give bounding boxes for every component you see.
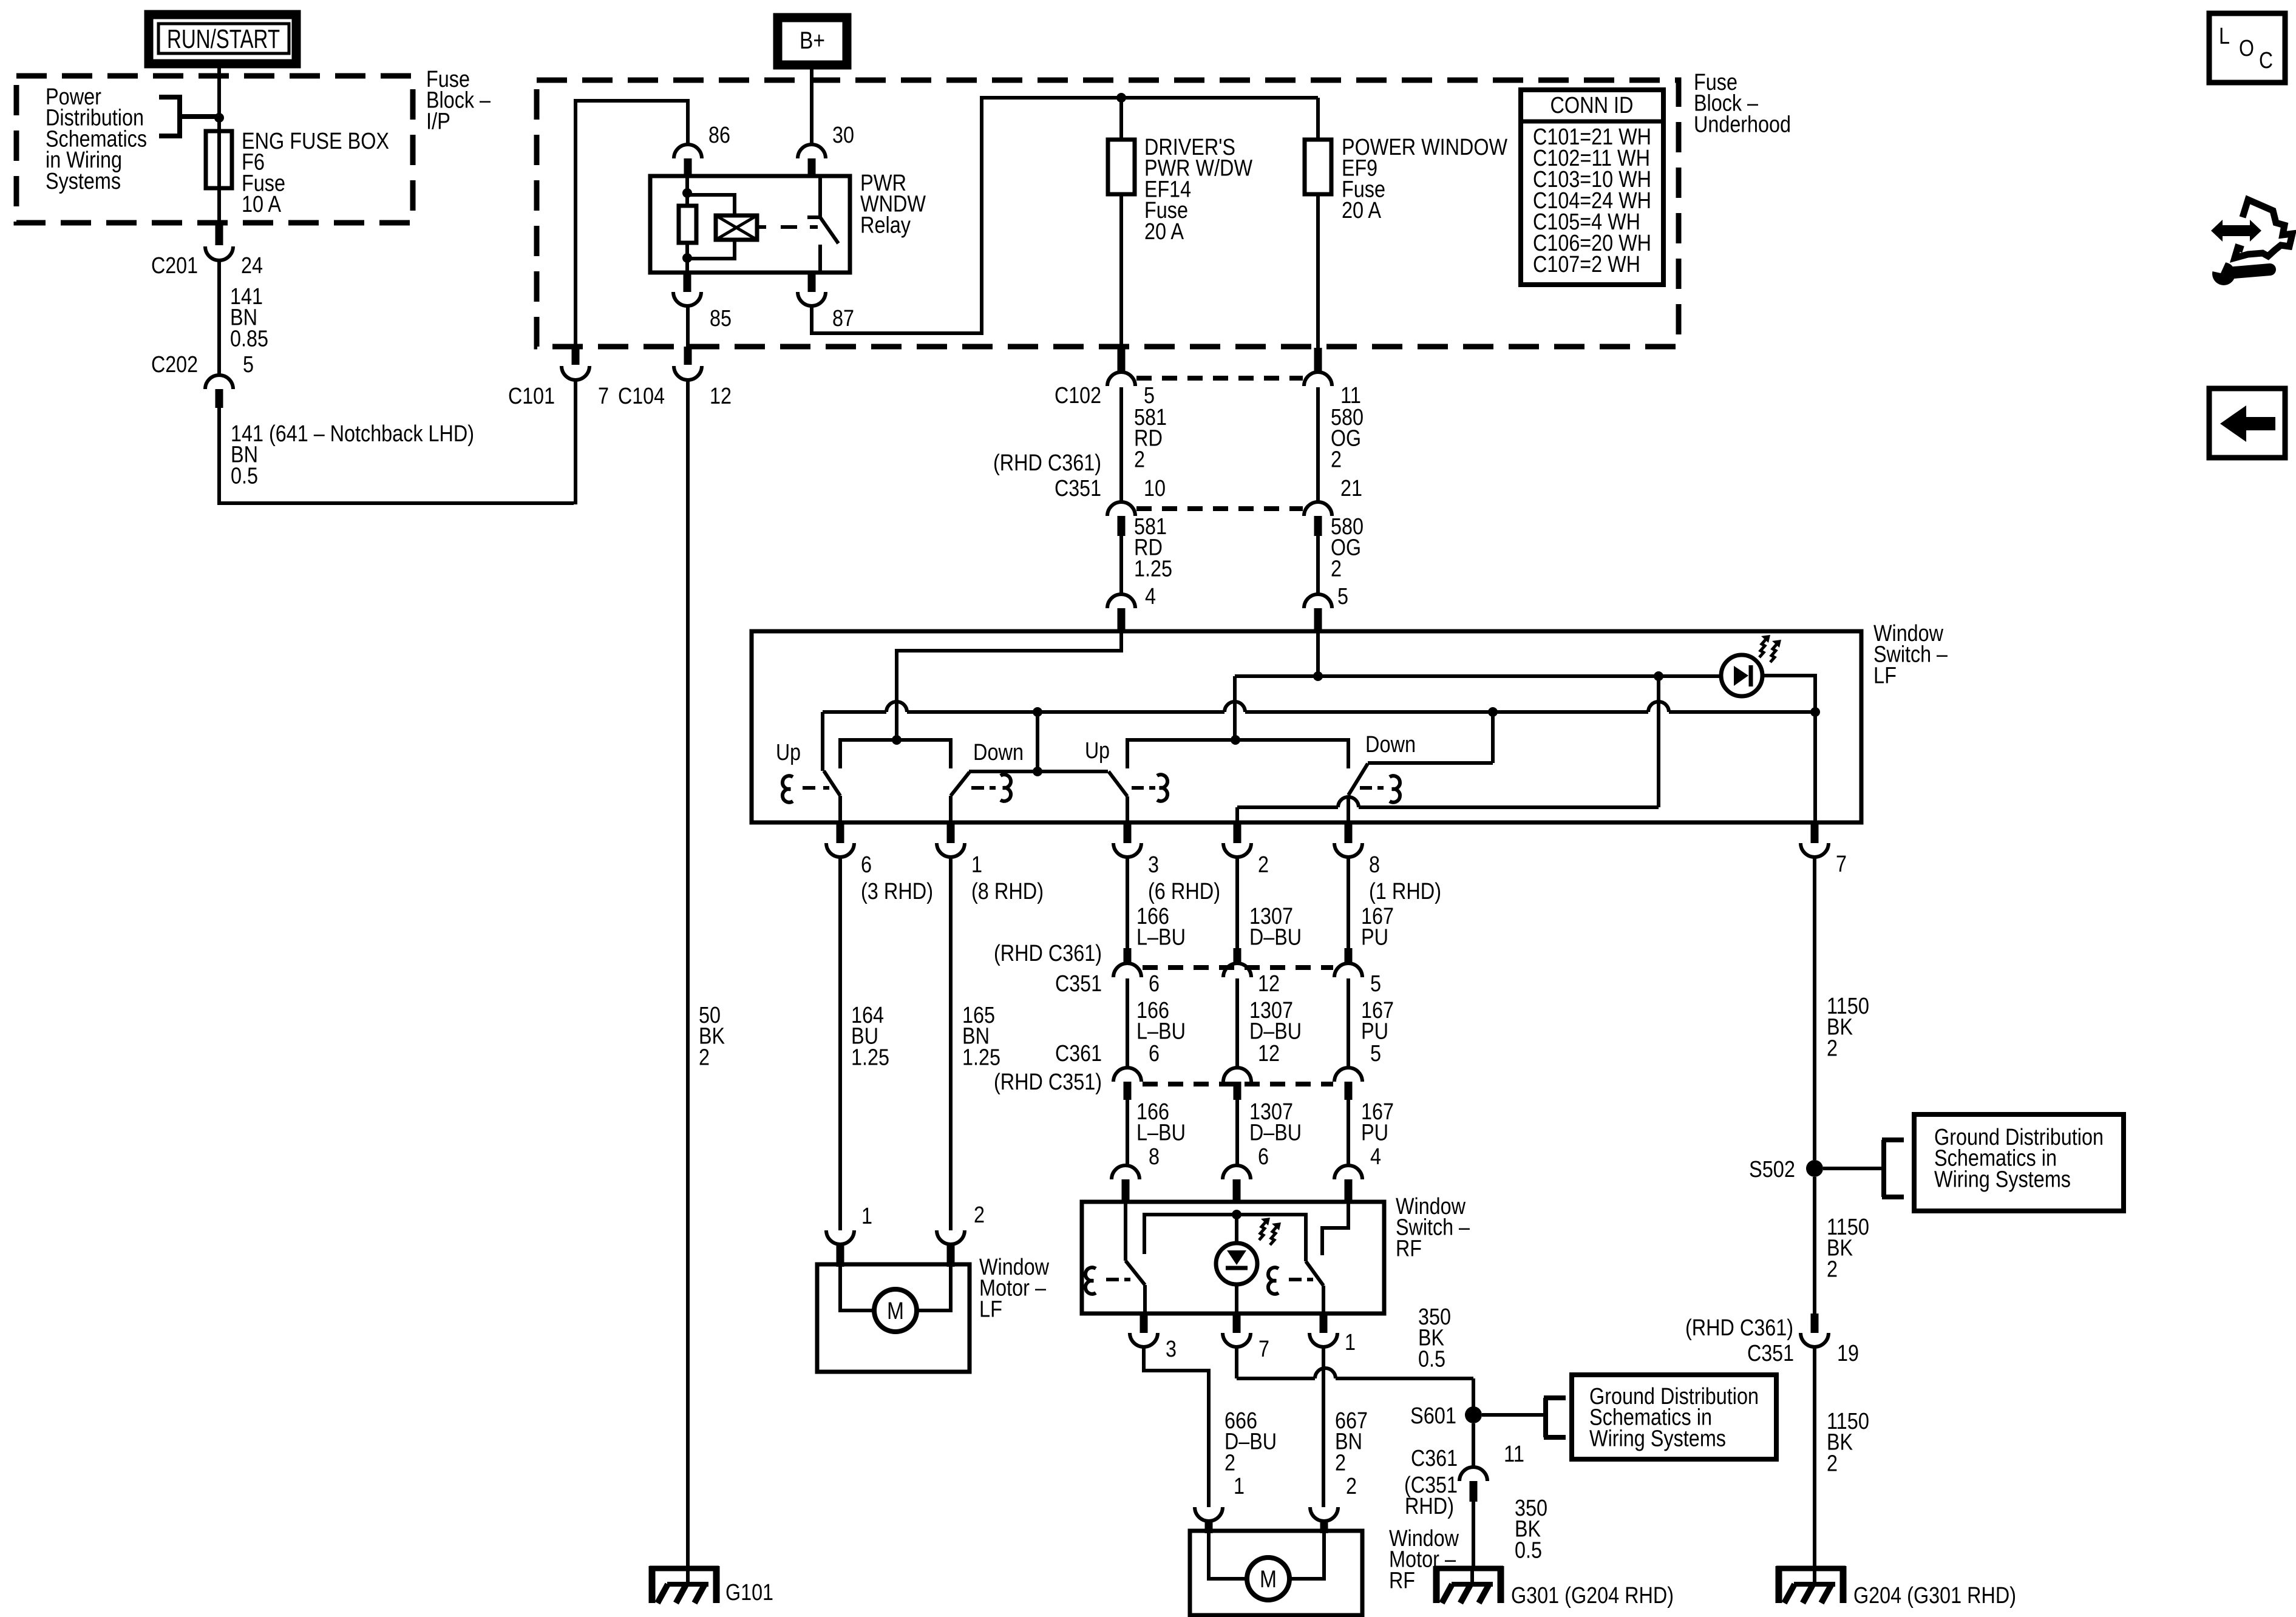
svg-text:5: 5 <box>243 352 254 378</box>
svg-text:L–BU: L–BU <box>1136 925 1186 951</box>
svg-text:(6 RHD): (6 RHD) <box>1148 879 1220 904</box>
svg-text:19: 19 <box>1837 1341 1859 1366</box>
svg-text:1.25: 1.25 <box>962 1045 1000 1070</box>
motor M RF <box>1247 1558 1289 1600</box>
wire supply down to rocker-2 bail <box>1233 676 1237 740</box>
svg-text:5: 5 <box>1337 584 1348 609</box>
svg-text:LF: LF <box>1873 663 1897 688</box>
svg-text:20 A: 20 A <box>1342 198 1382 223</box>
svg-text:(8 RHD): (8 RHD) <box>971 879 1044 904</box>
wire S601 down to C361 pin 11 <box>1472 1423 1475 1467</box>
connector LF switch pin 7 <box>1811 822 1819 843</box>
svg-text:D–BU: D–BU <box>1249 1120 1302 1146</box>
svg-text:6: 6 <box>1258 1144 1269 1170</box>
svg-text:7: 7 <box>1836 852 1847 877</box>
svg-text:G204 (G301 RHD): G204 (G301 RHD) <box>1853 1583 2016 1609</box>
switch Up-1 actuator <box>783 776 793 802</box>
svg-text:S502: S502 <box>1749 1157 1795 1182</box>
wire 666 D-BU RF pin 3 to motor <box>1144 1347 1209 1507</box>
switch Down-2 actuator <box>1390 776 1400 802</box>
svg-text:141 (641 – Notchback LHD): 141 (641 – Notchback LHD) <box>231 421 474 447</box>
wire pin 7 inside box <box>1813 712 1817 822</box>
wire net EF9 inside LF switch <box>1316 632 1320 676</box>
wire B+ to relay pin 30 <box>810 65 813 144</box>
wire relay 85 to C104 <box>686 306 690 347</box>
node junction below resistor <box>682 253 692 263</box>
svg-text:12: 12 <box>710 384 732 409</box>
wire 50 BK from C104 to G101 <box>686 380 690 1571</box>
wire 167 PU seg3 <box>1347 1100 1350 1165</box>
connector C102 pin 5 <box>1118 348 1126 372</box>
switch Down-1 actuator <box>1000 775 1011 801</box>
svg-text:Down: Down <box>973 740 1024 765</box>
svg-text:0.5: 0.5 <box>1418 1346 1445 1372</box>
connector motor LF pin 1 <box>826 1230 854 1244</box>
wire 1150 BK seg2 <box>1813 1177 1816 1314</box>
relay switch fixed contact from pin 30 <box>818 176 822 217</box>
wire 350 BK RF pin 7 to S601 <box>1235 1347 1238 1378</box>
connector motor RF pin 2 <box>1310 1507 1338 1521</box>
svg-text:(RHD C351): (RHD C351) <box>994 1070 1102 1095</box>
svg-text:86: 86 <box>708 123 730 148</box>
bail bracket rocker 2 <box>1127 740 1348 768</box>
svg-text:2: 2 <box>1331 447 1342 472</box>
wire 1150 BK seg3 to G204 <box>1813 1347 1816 1571</box>
svg-text:(3 RHD): (3 RHD) <box>861 879 933 904</box>
svg-text:1.25: 1.25 <box>851 1045 889 1070</box>
wire 580 OG 2 <box>1316 387 1320 502</box>
connector C351 pin 19 <box>1811 1314 1819 1333</box>
wire 166 L-BU seg3 <box>1126 1100 1129 1165</box>
connector C351 pin 21 <box>1304 502 1332 516</box>
component box Window Motor - RF <box>1190 1531 1362 1615</box>
connector RF switch bottom pin 3 <box>1140 1314 1148 1333</box>
switch Down-1 blade <box>951 772 970 796</box>
wire 1307 D-BU seg3 <box>1235 1100 1239 1165</box>
ground G204 <box>1776 1566 1846 1603</box>
switch Up-2 blade <box>1109 771 1127 796</box>
svg-text:C102: C102 <box>1055 383 1101 408</box>
node junction at Power Distribution tap <box>214 113 224 123</box>
svg-text:Wiring Systems: Wiring Systems <box>1589 1426 1726 1451</box>
reference bracket S502 <box>1882 1140 1904 1197</box>
component box Window Switch - LF <box>752 631 1861 822</box>
node junction ground bus to Down-2 rest wire <box>1488 707 1498 717</box>
switch Down-RF actuator <box>1268 1267 1279 1294</box>
svg-text:C101: C101 <box>508 384 555 409</box>
dashed connector link C102 <box>1136 376 1303 381</box>
wire C201 to C202 (141 BN 0.85) <box>217 260 221 375</box>
icon box back arrow <box>2209 388 2285 458</box>
svg-text:RF: RF <box>1389 1568 1415 1593</box>
svg-text:S601: S601 <box>1410 1403 1456 1429</box>
wire junction down to rest wire of rockers mid <box>1036 712 1039 771</box>
svg-text:Systems: Systems <box>46 169 121 194</box>
connector C351 pin 6 <box>1124 948 1132 964</box>
wire pin2 feed down to pin 2 <box>1657 676 1660 807</box>
connector C361 pin 12 <box>1223 1068 1251 1082</box>
svg-text:8: 8 <box>1369 852 1380 878</box>
ground bus wire inside LF switch <box>823 710 886 714</box>
wire pin 8 drop <box>1347 795 1350 822</box>
svg-text:12: 12 <box>1258 1041 1280 1066</box>
wire 350 BK 0.5 to G301 <box>1472 1502 1475 1571</box>
relay coil (box with X) <box>716 215 757 240</box>
table CONN ID <box>1521 90 1663 285</box>
wire 581 RD 2 <box>1119 387 1123 502</box>
connector RF switch bottom pin 7 <box>1233 1314 1241 1333</box>
wire to pin 2 with hop over pin 8 <box>1237 805 1338 809</box>
bail bracket rocker 1 <box>840 740 951 768</box>
wire pin 6 drop <box>838 796 842 822</box>
node junction on mid rest wire <box>1033 767 1042 776</box>
svg-text:6: 6 <box>1149 971 1160 997</box>
connector C202 pin 5 <box>205 375 233 389</box>
ground G101 <box>650 1566 719 1603</box>
svg-text:O: O <box>2239 36 2254 61</box>
svg-text:G101: G101 <box>725 1580 773 1605</box>
switch Up-RF blade <box>1126 1261 1145 1285</box>
svg-text:2: 2 <box>1335 1450 1346 1476</box>
node junction supply <box>1313 671 1323 681</box>
wire RF pin 1 drop <box>1322 1286 1325 1314</box>
wire RF pin 3 drop <box>1143 1285 1147 1314</box>
reference bracket S601 <box>1544 1398 1566 1437</box>
svg-text:M: M <box>1260 1566 1277 1593</box>
connector relay pin 86 <box>674 144 702 158</box>
svg-text:6: 6 <box>861 852 872 878</box>
svg-text:RF: RF <box>1396 1236 1422 1261</box>
svg-text:10 A: 10 A <box>242 192 282 217</box>
fuse F6 ENG FUSE BOX 10A <box>206 131 232 188</box>
fuse EF14 DRIVERS PWR W/DW 20A <box>1108 140 1135 194</box>
rest wire of Down-2 <box>1368 761 1493 765</box>
connector into LF switch pin 4 <box>1107 594 1135 608</box>
wire 1307 D-BU seg2 <box>1235 978 1239 1068</box>
connector C361 pin 6 <box>1113 1068 1141 1082</box>
wire ground bus left end down to Up-1 contact <box>821 712 824 771</box>
wire branch to coil top <box>687 195 735 215</box>
connector C101 pin 7 <box>572 347 580 365</box>
svg-text:1: 1 <box>861 1204 872 1229</box>
svg-text:D–BU: D–BU <box>1249 925 1302 951</box>
connector LF switch pin 3 <box>1124 822 1132 843</box>
wire LED to ground bus <box>1762 676 1815 712</box>
dashed connector link C361 <box>1143 1082 1333 1086</box>
motor M LF <box>874 1289 917 1332</box>
wire 141 up into C101 <box>574 380 577 504</box>
node junction on RF bail <box>1232 1210 1241 1219</box>
svg-text:L–BU: L–BU <box>1136 1019 1186 1045</box>
node junction ground bus to Down-1 feed <box>1033 707 1042 717</box>
rest wire between Down-1 and Up-2 <box>969 770 1108 773</box>
wire 167 PU seg2 <box>1347 978 1350 1068</box>
relay switch lower contact to pin 87 <box>818 245 822 273</box>
power feed box B+ <box>778 18 847 65</box>
LED illumination arrows RF <box>1259 1218 1281 1245</box>
svg-text:C351: C351 <box>1747 1341 1794 1366</box>
node junction ground bus at pin 7 <box>1810 707 1820 717</box>
dashed connector link C351 mid <box>1143 965 1333 970</box>
note box Ground Distribution (S502) <box>1914 1114 2124 1211</box>
wire 581 RD 1.25 <box>1119 536 1123 594</box>
connector relay pin 30 <box>798 144 826 158</box>
svg-text:C361: C361 <box>1411 1446 1458 1471</box>
svg-text:3: 3 <box>1148 852 1159 878</box>
svg-text:Down: Down <box>1365 732 1416 758</box>
svg-text:1.25: 1.25 <box>1134 556 1172 581</box>
svg-text:2: 2 <box>1827 1036 1838 1061</box>
motor LF internal wiring <box>840 1267 874 1310</box>
svg-text:RHD): RHD) <box>1405 1494 1454 1519</box>
wire 164 BU to motor LF pin 1 <box>838 857 842 1230</box>
connector into LF switch pin 5 <box>1304 594 1332 608</box>
connector C102 pin 11 <box>1314 348 1322 372</box>
wire RUN/START to fuse F6 <box>217 64 221 224</box>
svg-text:2: 2 <box>1258 852 1269 878</box>
svg-text:0.85: 0.85 <box>230 326 268 351</box>
LED indicator RF switch <box>1216 1215 1257 1314</box>
switch Up-RF actuator <box>1085 1267 1096 1294</box>
svg-text:(RHD C361): (RHD C361) <box>994 941 1102 966</box>
switch Down-RF blade <box>1306 1261 1323 1286</box>
connector C361 pin 5 <box>1334 1068 1362 1082</box>
svg-text:M: M <box>887 1298 904 1324</box>
fuse EF9 POWER WINDOW 20A <box>1305 140 1331 194</box>
svg-text:C201: C201 <box>151 253 198 279</box>
switch Down-2 blade <box>1348 764 1368 795</box>
svg-text:Relay: Relay <box>860 212 911 238</box>
svg-text:7: 7 <box>598 384 609 409</box>
supply wire to LED and bail 2 <box>1235 674 1722 678</box>
connector C351 pin 12 <box>1234 948 1241 964</box>
wire pin 3 drop <box>1126 796 1129 822</box>
connector LF switch pin 6 <box>837 822 844 843</box>
wire EF14 to C102 pin 5 <box>1119 194 1123 348</box>
svg-text:11: 11 <box>1504 1442 1524 1467</box>
note box Ground Distribution (S601) <box>1572 1375 1776 1459</box>
connector relay pin 85 <box>684 273 691 292</box>
svg-text:8: 8 <box>1149 1144 1160 1170</box>
svg-text:G301 (G204 RHD): G301 (G204 RHD) <box>1511 1583 1674 1609</box>
dashed box Fuse Block - I/P <box>16 76 413 223</box>
svg-text:20 A: 20 A <box>1144 219 1184 245</box>
icon box LOC <box>2209 13 2285 83</box>
svg-text:2: 2 <box>974 1202 985 1228</box>
svg-text:Wiring Systems: Wiring Systems <box>1934 1167 2071 1192</box>
wire EF9 feed down <box>1316 98 1320 140</box>
svg-text:C202: C202 <box>151 352 198 378</box>
wire 167 PU from LF pin 8 <box>1347 857 1350 948</box>
wire 141 (641) BN 0.5 down and right to C101 <box>219 408 574 503</box>
wire 166 L-BU from LF pin 3 <box>1126 857 1129 948</box>
svg-text:C351: C351 <box>1055 476 1101 501</box>
icon service tool (arrow car wrench) <box>2207 200 2292 285</box>
svg-text:C: C <box>2259 48 2273 73</box>
svg-text:5: 5 <box>1370 971 1381 997</box>
LED illumination arrows LF <box>1759 635 1781 662</box>
wire pin 1 drop <box>949 796 953 822</box>
switch Up-1 blade <box>824 771 840 796</box>
svg-text:10: 10 <box>1144 476 1166 501</box>
wire pin 2 drop <box>1235 807 1239 822</box>
svg-text:0.5: 0.5 <box>1515 1537 1542 1563</box>
connector RF switch pin 8 <box>1112 1165 1140 1179</box>
svg-text:3: 3 <box>1166 1337 1177 1362</box>
connector LF switch pin 1 <box>947 822 955 843</box>
wire EF14 tap down <box>1119 98 1123 140</box>
switch Up-2 actuator <box>1157 775 1167 801</box>
connector motor RF pin 1 <box>1195 1507 1223 1521</box>
reference bracket Power Distribution <box>159 95 219 138</box>
component box Window Switch - RF <box>1082 1202 1384 1314</box>
svg-text:RUN/START: RUN/START <box>167 24 280 54</box>
svg-text:C351: C351 <box>1055 971 1102 997</box>
svg-text:0.5: 0.5 <box>231 463 258 489</box>
svg-text:2: 2 <box>1224 1450 1235 1476</box>
svg-text:LF: LF <box>979 1297 1002 1322</box>
wire S601 to ground note <box>1482 1413 1546 1417</box>
svg-text:30: 30 <box>832 123 854 148</box>
connector LF switch pin 8 <box>1345 822 1353 843</box>
relay K1 PWR WNDW Relay box <box>650 176 850 273</box>
connector C201 pin 24 <box>216 224 223 245</box>
node junction fuse EF14 tap <box>1116 93 1126 103</box>
node junction on rocker-1 bail <box>892 735 902 745</box>
svg-text:2: 2 <box>1331 556 1342 581</box>
svg-text:Up: Up <box>776 740 801 765</box>
svg-text:(RHD C361): (RHD C361) <box>993 450 1101 476</box>
connector LF switch pin 2 <box>1234 822 1241 843</box>
connector C351 pin 10 <box>1107 502 1135 516</box>
connector RF switch pin 4 <box>1334 1165 1362 1179</box>
svg-text:L: L <box>2219 24 2230 49</box>
wire 166 feed inside RF switch <box>1124 1203 1127 1261</box>
wire 165 BN to motor LF pin 2 <box>949 857 953 1230</box>
connector C104 pin 12 <box>684 347 692 365</box>
node junction on rocker-2 bail <box>1231 735 1240 745</box>
wire net EF14 inside LF switch to rocker-1 bail <box>897 632 1121 740</box>
svg-text:(RHD C361): (RHD C361) <box>1685 1315 1793 1341</box>
relay coil feed wire from pin 86 <box>685 176 689 206</box>
svg-text:(1 RHD): (1 RHD) <box>1369 879 1441 904</box>
connector C361 pin 11 <box>1459 1467 1487 1481</box>
svg-text:B+: B+ <box>800 27 825 54</box>
svg-text:C104: C104 <box>618 384 665 409</box>
wire 1150 BK from LF pin 7 <box>1813 857 1816 1160</box>
svg-text:Up: Up <box>1085 738 1110 764</box>
node junction above resistor <box>682 188 692 198</box>
connector C351 pin 5 <box>1345 948 1353 964</box>
svg-text:2: 2 <box>1134 447 1145 472</box>
svg-text:5: 5 <box>1370 1041 1381 1066</box>
dashed connector link C351 <box>1136 506 1303 511</box>
wire junction down to Down-2 rest wire <box>1491 712 1495 763</box>
svg-text:2: 2 <box>1827 1451 1838 1476</box>
svg-text:12: 12 <box>1258 971 1280 997</box>
relay switch blade <box>820 217 838 243</box>
wire branch from coil bottom <box>687 240 735 259</box>
wire 580 OG 2 seg2 <box>1316 536 1320 594</box>
bail bracket RF <box>1144 1215 1306 1261</box>
wire 1307 D-BU from LF pin 2 <box>1235 857 1239 948</box>
resistor inside relay <box>679 206 696 243</box>
splice S601 <box>1465 1406 1482 1423</box>
svg-text:85: 85 <box>710 306 732 331</box>
wire 667 BN RF pin 1 to motor <box>1322 1347 1325 1507</box>
svg-text:L–BU: L–BU <box>1136 1120 1186 1146</box>
dashed box Fuse Block - Underhood <box>537 80 1679 347</box>
power feed box RUN/START <box>149 15 296 64</box>
svg-text:2: 2 <box>1346 1474 1357 1499</box>
wire resistor bottom to relay pin 85 <box>685 243 689 273</box>
svg-text:1: 1 <box>971 852 982 878</box>
svg-text:CONN ID: CONN ID <box>1550 93 1634 118</box>
svg-text:7: 7 <box>1258 1337 1269 1362</box>
wire EF9 to C102 pin 11 <box>1316 194 1320 348</box>
connector relay pin 87 <box>808 273 816 292</box>
svg-text:I/P: I/P <box>426 109 450 134</box>
svg-text:21: 21 <box>1340 476 1362 501</box>
svg-text:87: 87 <box>832 306 854 331</box>
wire 167 feed inside RF switch <box>1322 1203 1348 1255</box>
relay actuator dashed link <box>757 225 766 229</box>
component box Window Motor - LF <box>817 1264 970 1372</box>
wire S502 to ground note <box>1823 1167 1884 1170</box>
wire relay 87 over to fuses <box>812 98 1318 333</box>
svg-text:PU: PU <box>1361 1120 1388 1146</box>
svg-text:4: 4 <box>1145 584 1156 609</box>
svg-text:1: 1 <box>1234 1474 1245 1499</box>
LED indicator LF switch <box>1721 655 1762 696</box>
connector RF switch bottom pin 1 <box>1320 1314 1328 1333</box>
splice S502 <box>1806 1160 1823 1177</box>
svg-text:2: 2 <box>1827 1256 1838 1282</box>
svg-text:C361: C361 <box>1055 1041 1102 1066</box>
svg-text:1: 1 <box>1345 1330 1356 1355</box>
svg-text:Underhood: Underhood <box>1694 112 1791 137</box>
svg-text:PU: PU <box>1361 925 1388 951</box>
connector motor LF pin 2 <box>937 1230 965 1244</box>
connector RF switch pin 6 <box>1223 1165 1251 1179</box>
wire 166 L-BU seg2 <box>1126 978 1129 1068</box>
svg-text:C107=2 WH: C107=2 WH <box>1533 252 1640 277</box>
svg-text:4: 4 <box>1370 1144 1381 1170</box>
ground G301 <box>1434 1566 1503 1603</box>
svg-text:24: 24 <box>241 253 263 279</box>
svg-text:2: 2 <box>699 1045 710 1070</box>
motor RF internal wiring <box>1209 1533 1247 1579</box>
node junction to pin2 feed <box>1654 671 1663 681</box>
wire C101 up and over to relay pin 86 <box>576 101 688 346</box>
svg-text:6: 6 <box>1149 1041 1160 1066</box>
